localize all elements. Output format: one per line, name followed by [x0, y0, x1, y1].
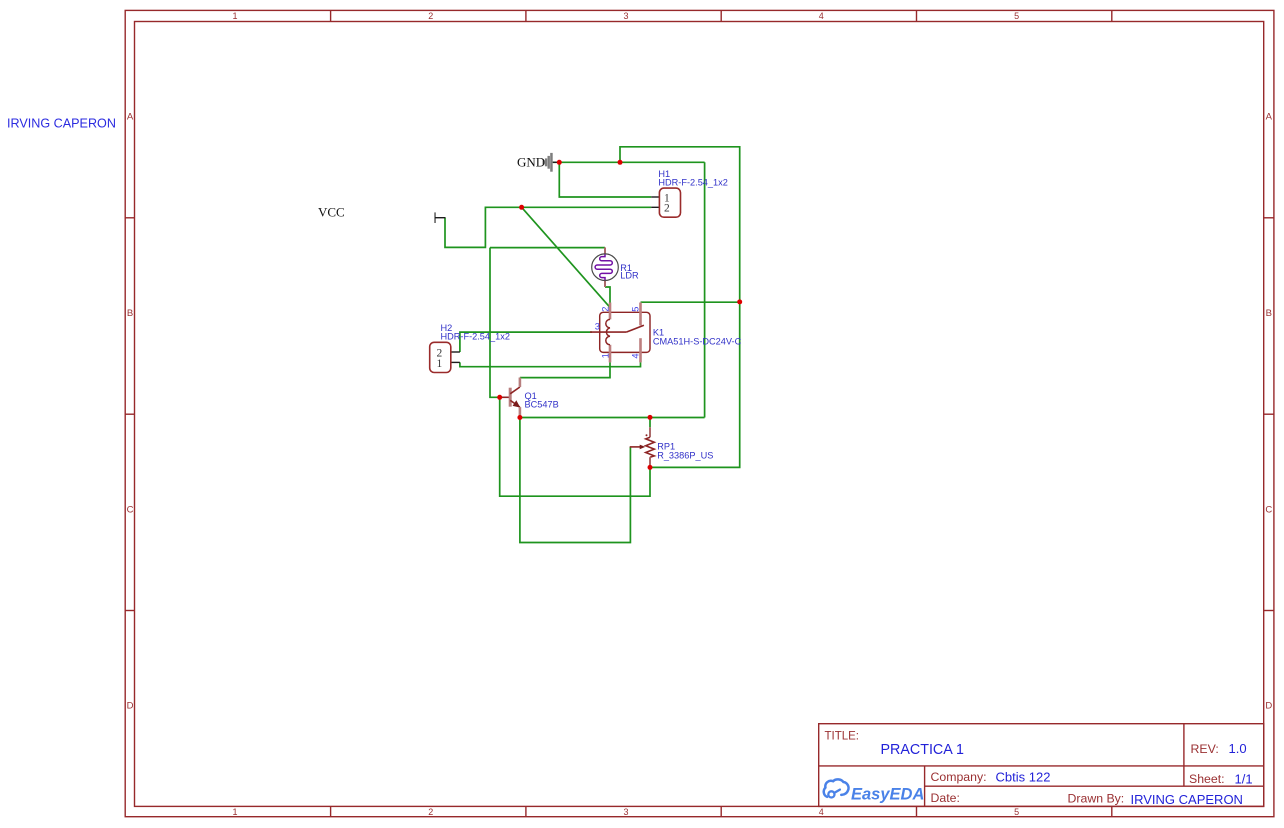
ground symbol	[517, 153, 558, 172]
svg-text:Sheet:: Sheet:	[1189, 772, 1225, 786]
svg-text:2: 2	[664, 203, 670, 215]
svg-text:Drawn By:: Drawn By:	[1068, 792, 1125, 806]
svg-text:GND: GND	[517, 155, 545, 170]
junction Q1 base	[497, 395, 502, 400]
connector H1	[651, 169, 728, 217]
svg-text:3: 3	[623, 807, 628, 817]
svg-text:3: 3	[623, 11, 628, 21]
wire Q1 emitter right	[520, 417, 705, 419]
svg-text:C: C	[127, 505, 134, 516]
svg-text:4: 4	[819, 11, 824, 21]
VCC power flag	[318, 205, 446, 224]
svg-text:HDR-F-2.54_1x2: HDR-F-2.54_1x2	[658, 177, 727, 187]
svg-text:2: 2	[428, 807, 433, 817]
svg-text:2: 2	[601, 307, 611, 312]
K1 pin 5 stub	[639, 303, 642, 326]
svg-text:B: B	[127, 308, 133, 319]
wire right vertical to RP1 bottom	[650, 302, 740, 468]
ruler numbers top	[232, 11, 1019, 21]
svg-text:4: 4	[631, 353, 641, 358]
svg-text:5: 5	[1014, 807, 1019, 817]
ruler numbers bottom	[232, 807, 1019, 817]
svg-text:PRACTICA 1: PRACTICA 1	[881, 742, 964, 758]
svg-text:EasyEDA: EasyEDA	[851, 786, 924, 804]
wire H2 pin1 to K1 pin4	[460, 362, 641, 366]
wire H2 pin2 to K1 pin3	[460, 332, 592, 352]
svg-text:Date:: Date:	[931, 791, 960, 805]
svg-text:R_3386P_US: R_3386P_US	[657, 451, 713, 461]
svg-text:A: A	[127, 112, 134, 123]
svg-text:B: B	[1266, 308, 1272, 319]
svg-text:5: 5	[1014, 11, 1019, 21]
wire K1 pin1 to Q1 collector	[520, 362, 610, 377]
junction RP1 bottom	[648, 465, 653, 470]
svg-text:Company:: Company:	[931, 770, 987, 784]
svg-text:D: D	[1265, 701, 1272, 712]
svg-text:4: 4	[819, 807, 824, 817]
K1 switch contact	[626, 325, 644, 332]
wire GND up branch	[620, 147, 740, 302]
photoresistor R1 LDR	[592, 247, 639, 287]
svg-text:IRVING CAPERON: IRVING CAPERON	[1131, 792, 1243, 807]
wire diagonal VCC net to K1 pin2	[522, 207, 610, 307]
wire LDR top to Q1 base	[490, 248, 500, 398]
junction GND	[557, 160, 562, 165]
wire GND to H1 pin1	[559, 162, 651, 197]
ruler letters right	[1265, 112, 1272, 712]
junction GND up branch	[618, 160, 623, 165]
svg-text:REV:: REV:	[1191, 742, 1219, 756]
svg-text:1: 1	[601, 353, 611, 358]
svg-text:2: 2	[428, 11, 433, 21]
junction K1 pin5 net	[737, 299, 742, 304]
K1 coil	[606, 319, 610, 344]
svg-text:A: A	[1266, 112, 1273, 123]
svg-text:Cbtis 122: Cbtis 122	[996, 770, 1051, 785]
wire GND horizontal	[553, 161, 705, 163]
svg-text:1: 1	[232, 11, 237, 21]
relay K1	[590, 303, 742, 363]
wire Q1 emitter to RP1 wiper	[520, 418, 631, 543]
wire H1 pin2 to VCC	[445, 207, 651, 247]
wire Q1 base to RP1 bottom	[500, 397, 650, 496]
ruler letters left	[127, 112, 134, 712]
K1 pin 4 stub	[639, 338, 642, 362]
svg-text:5: 5	[631, 307, 641, 312]
junction dots	[497, 160, 742, 470]
wire K1 pin5 to right vertical	[641, 301, 740, 303]
K1 pin 3 lead	[590, 331, 626, 333]
svg-text:CMA51H-S-DC24V-C: CMA51H-S-DC24V-C	[653, 337, 742, 347]
svg-text:D: D	[127, 701, 134, 712]
svg-text:HDR-F-2.54_1x2: HDR-F-2.54_1x2	[441, 331, 510, 341]
wire RP1 top	[649, 417, 651, 427]
title block	[819, 724, 1264, 807]
svg-text:TITLE:: TITLE:	[825, 731, 860, 743]
junction VCC diagonal	[519, 205, 524, 210]
wire LDR bottom to K1 pin2	[605, 287, 610, 307]
connector H2	[430, 323, 510, 373]
svg-text:1/1: 1/1	[1235, 772, 1253, 787]
K1 pin 1 stub	[609, 345, 612, 363]
potentiometer RP1	[630, 427, 714, 467]
svg-text:VCC: VCC	[318, 205, 345, 220]
wire emitter vertical right	[704, 162, 706, 417]
transistor Q1	[500, 378, 559, 418]
K1 pin 2 stub	[609, 303, 612, 320]
junction Q1 emitter	[517, 415, 522, 420]
EasyEDA logo	[824, 779, 849, 797]
svg-text:C: C	[1265, 505, 1272, 516]
svg-text:LDR: LDR	[620, 271, 639, 281]
svg-text:1: 1	[437, 358, 443, 370]
svg-text:BC547B: BC547B	[525, 399, 559, 409]
junction RP1 top	[648, 415, 653, 420]
svg-text:IRVING CAPERON: IRVING CAPERON	[7, 117, 116, 131]
svg-text:3: 3	[595, 322, 600, 332]
svg-text:1: 1	[232, 807, 237, 817]
wire LDR top	[490, 247, 605, 249]
svg-text:1.0: 1.0	[1229, 741, 1247, 756]
